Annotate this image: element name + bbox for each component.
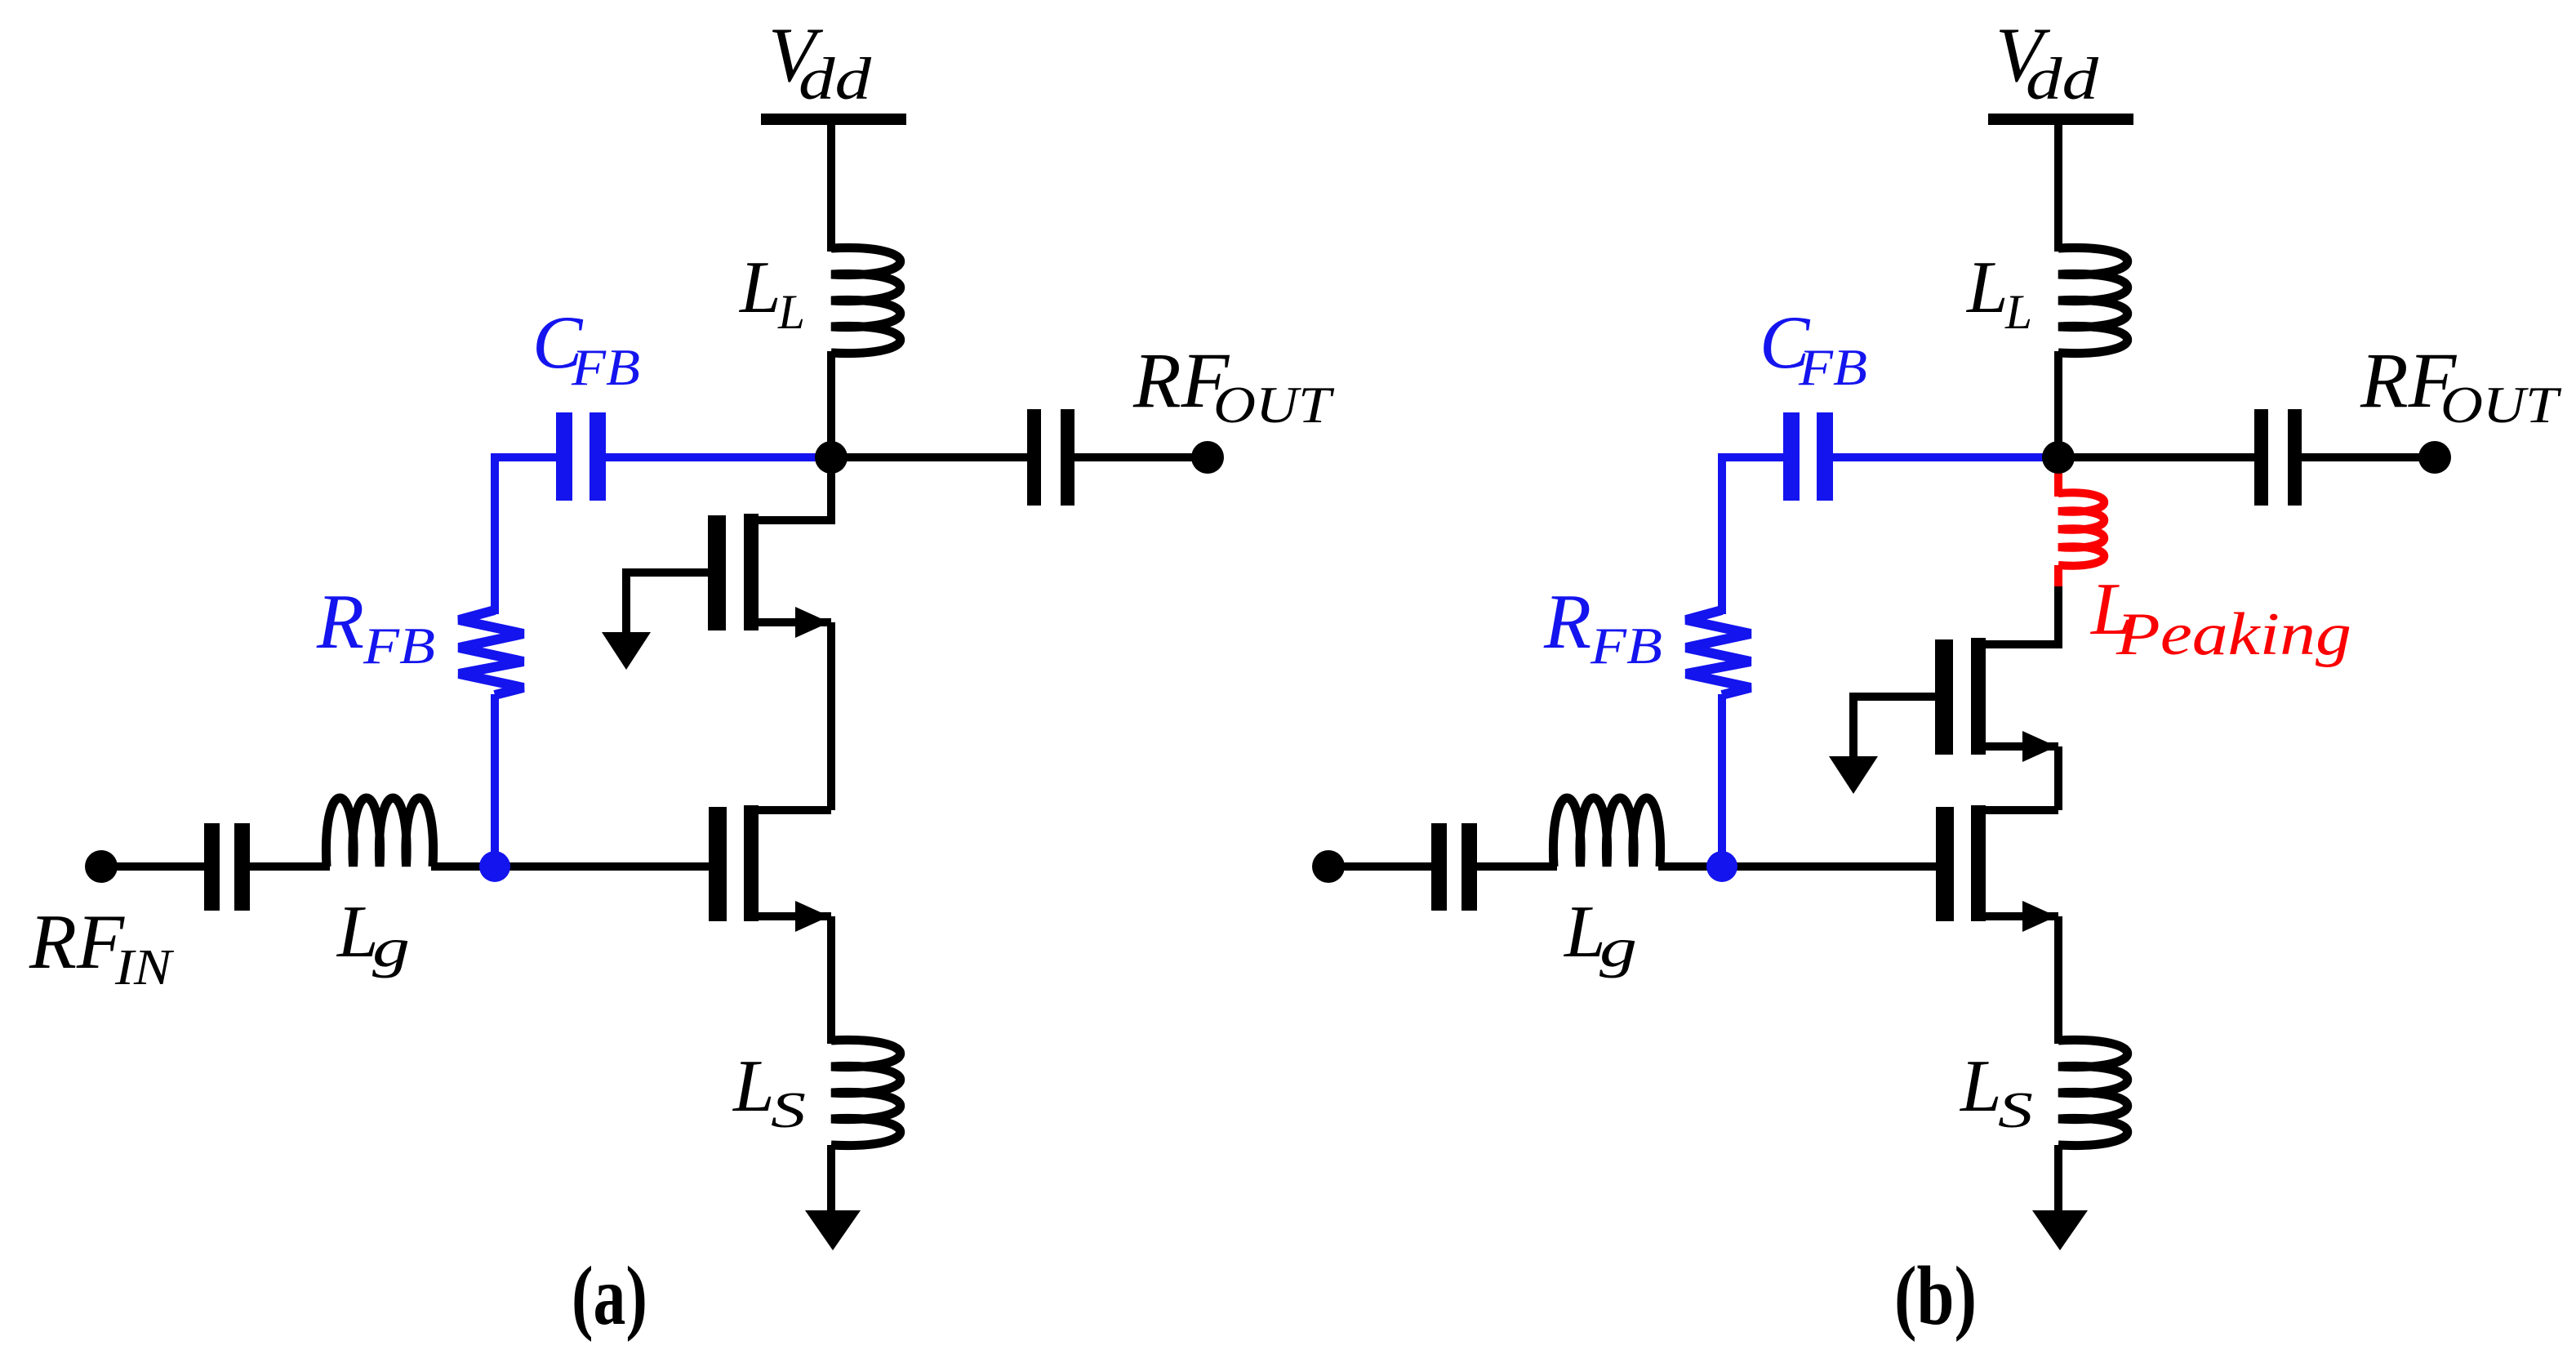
- input capacitor (a): [204, 823, 220, 911]
- blue wire RFB to CFB (a): [495, 457, 558, 614]
- inductor Lg (a): [326, 798, 433, 867]
- wire LS to ground (b): [2054, 1145, 2062, 1212]
- M1 drain lead (a): [755, 806, 831, 814]
- M1 source lead with arrow (b): [1982, 912, 2058, 920]
- transistor M1 (b): [1936, 807, 1954, 921]
- svg-text:L: L: [1959, 1045, 2002, 1127]
- inductor LL (a): [831, 247, 901, 353]
- wire M1 source to LS (a): [827, 916, 835, 1044]
- svg-text:dd: dd: [799, 46, 872, 112]
- RFIN terminal (b): [1312, 850, 1345, 883]
- svg-text:IN: IN: [114, 940, 175, 996]
- svg-text:FB: FB: [571, 338, 640, 396]
- wire Vdd to LL (b): [2054, 119, 2062, 252]
- M1 drain lead (b): [1982, 806, 2058, 814]
- wire M2 source to M1 drain (a): [827, 622, 835, 810]
- input capacitor (b): [1431, 823, 1447, 911]
- feedback resistor RFB (a): [459, 610, 523, 695]
- feedback resistor RFB (b): [1686, 610, 1751, 695]
- svg-text:FB: FB: [1798, 338, 1867, 396]
- svg-text:OUT: OUT: [1213, 376, 1335, 434]
- svg-text:FB: FB: [363, 617, 435, 675]
- svg-text:g: g: [372, 916, 410, 978]
- wire capacitor to Lg (b): [1477, 862, 1557, 871]
- red wire LPeaking lower lead (b): [2054, 565, 2062, 590]
- blue wire gate node to RFB (b): [1718, 694, 1726, 867]
- feedback capacitor CFB (a): [556, 412, 572, 501]
- svg-text:R: R: [316, 578, 364, 665]
- svg-text:R: R: [1543, 578, 1591, 665]
- wire capacitor to RFOUT (b): [2302, 453, 2435, 461]
- wire Lg to gate node (b): [1658, 862, 1722, 871]
- output node (a): [815, 441, 848, 474]
- output node (b): [2042, 441, 2075, 474]
- wire M1 gate (a): [495, 862, 709, 871]
- inductor LL (b): [2058, 247, 2128, 353]
- ground arrow (a): [805, 1210, 861, 1250]
- AC ground arrow at M2 gate (a): [602, 632, 651, 670]
- svg-text:L: L: [2004, 285, 2032, 339]
- AC ground arrow at M2 gate (b): [1829, 756, 1878, 794]
- wire LL to output node (a): [827, 351, 835, 457]
- wire node to M2 drain (a): [827, 457, 835, 524]
- M2 gate lead (a): [626, 573, 708, 632]
- svg-text:RF: RF: [29, 898, 125, 985]
- output DC-block capacitor (a): [1027, 409, 1041, 506]
- Vdd supply bar (a): [761, 114, 906, 125]
- svg-text:FB: FB: [1590, 617, 1662, 675]
- svg-text:L: L: [777, 285, 805, 339]
- inductor LS (b): [2058, 1040, 2128, 1145]
- wire LL to output node (b): [2054, 351, 2062, 457]
- M2 source lead with arrow (b): [1982, 742, 2058, 751]
- M2 source lead with arrow (a): [755, 618, 831, 626]
- wire RFIN to input capacitor (a): [101, 862, 206, 871]
- wire Lg to gate node (a): [431, 862, 495, 871]
- svg-text:OUT: OUT: [2440, 376, 2562, 434]
- RFIN terminal (a): [85, 850, 118, 883]
- wire LS to ground (a): [827, 1145, 835, 1212]
- wire M1 source to LS (b): [2054, 916, 2062, 1044]
- RFOUT terminal (a): [1191, 441, 1224, 474]
- RFOUT terminal (b): [2418, 441, 2451, 474]
- blue wire gate node to RFB (a): [491, 694, 499, 867]
- output DC-block capacitor (b): [2254, 409, 2268, 506]
- Vdd supply bar (b): [1988, 114, 2133, 125]
- svg-text:(a): (a): [572, 1250, 647, 1343]
- wire capacitor to RFOUT (a): [1074, 453, 1208, 461]
- wire node to LPeaking (b): [2054, 462, 2062, 497]
- gate junction node (b): [1706, 851, 1737, 882]
- svg-text:dd: dd: [2026, 46, 2099, 112]
- ground arrow (b): [2032, 1210, 2088, 1250]
- cascode transistor M2 (b): [1935, 639, 1953, 755]
- wire capacitor to Lg (a): [250, 862, 330, 871]
- inductor LS (a): [831, 1040, 901, 1145]
- inductor LPeaking (b): [2058, 492, 2104, 565]
- M2 gate lead (b): [1853, 697, 1935, 756]
- svg-text:g: g: [1599, 916, 1637, 978]
- wire node to output capacitor (a): [831, 453, 1028, 461]
- svg-text:L: L: [732, 1045, 775, 1127]
- wire M2 source to M1 drain (b): [2054, 746, 2062, 810]
- transistor M1 (a): [709, 807, 727, 921]
- blue wire CFB to output node (a): [606, 453, 831, 461]
- M2 drain lead (b): [1982, 640, 2058, 648]
- wire Vdd to LL (a): [827, 119, 835, 252]
- wire node to output capacitor (b): [2058, 453, 2255, 461]
- inductor Lg (b): [1553, 798, 1660, 867]
- svg-text:L: L: [738, 246, 781, 328]
- svg-text:S: S: [771, 1083, 806, 1138]
- svg-text:Peaking: Peaking: [2116, 601, 2351, 668]
- feedback capacitor CFB (b): [1783, 412, 1800, 501]
- blue wire CFB to output node (b): [1833, 453, 2058, 461]
- wire M1 gate (b): [1722, 862, 1936, 871]
- svg-text:S: S: [1998, 1083, 2033, 1138]
- blue wire RFB to CFB (b): [1722, 457, 1785, 614]
- M1 source lead with arrow (a): [755, 912, 831, 920]
- M2 drain lead (a): [755, 516, 831, 524]
- wire LPeaking to M2 drain (b): [2054, 586, 2062, 648]
- svg-text:(b): (b): [1894, 1250, 1977, 1343]
- wire RFIN to input capacitor (b): [1328, 862, 1433, 871]
- svg-text:L: L: [1965, 246, 2009, 328]
- cascode transistor M2 (a): [708, 515, 726, 630]
- gate junction node (a): [479, 851, 510, 882]
